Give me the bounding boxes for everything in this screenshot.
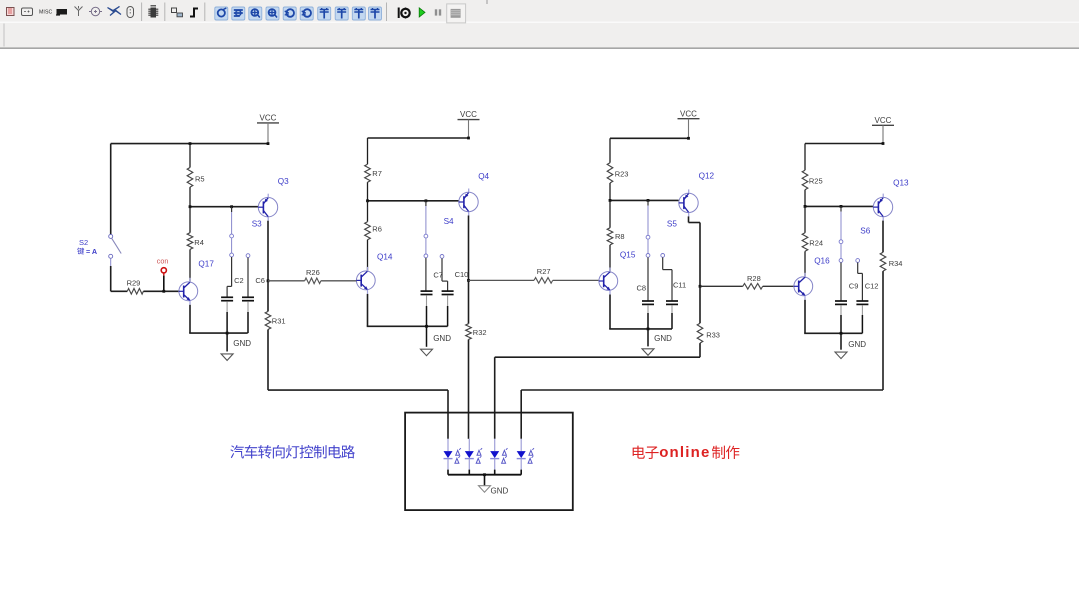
ground stage 3	[647, 328, 650, 331]
wire R34 to LED bus	[882, 271, 884, 390]
wire mid node stage 4	[805, 205, 873, 207]
svg-text:C6: C6	[255, 276, 265, 285]
title text (chinese blue)	[230, 445, 244, 458]
LED LED1	[447, 439, 449, 451]
transistor Q13 (PNP)	[873, 197, 892, 216]
svg-text:Q17: Q17	[198, 260, 214, 269]
toolbar icon: simulate settings (gear)	[398, 8, 400, 19]
svg-text:VCC: VCC	[680, 109, 697, 118]
toolbar icon: antenna Y	[75, 6, 83, 16]
svg-text:R24: R24	[809, 238, 823, 247]
svg-text:R23: R23	[615, 170, 629, 179]
switch S2	[109, 234, 113, 238]
toolbar separator	[164, 3, 166, 22]
transistor Q17 (NPN)	[179, 282, 198, 301]
wire LED cathode bus	[448, 474, 521, 476]
toolbar icon: pause	[435, 9, 437, 15]
svg-text:Q14: Q14	[377, 253, 393, 262]
title text (red)	[633, 446, 645, 459]
svg-text:online: online	[659, 444, 710, 461]
resistor R34	[880, 252, 886, 271]
capacitor C10	[440, 255, 444, 259]
svg-text:C10: C10	[455, 270, 469, 279]
wire R27 output stage2 to Q15 base	[469, 279, 535, 281]
resistor R26	[305, 278, 321, 284]
svg-text:GND: GND	[433, 334, 451, 343]
svg-text:R27: R27	[537, 267, 551, 276]
toolbar icon: stop button	[447, 4, 466, 23]
wire bottom rail stage 4	[804, 332, 862, 334]
transistor Q15 (NPN)	[599, 272, 618, 291]
toolbar icon: black display	[57, 9, 68, 15]
svg-text:C11: C11	[673, 281, 686, 290]
wire mid node stage 1	[190, 206, 258, 208]
toolbar icon: blue X wizard	[108, 7, 122, 16]
transistor Q4 (PNP)	[459, 192, 478, 211]
toolbar icon: instrument (TV)	[22, 8, 33, 16]
toolbar icon: run (green play)	[419, 8, 425, 17]
resistor R23	[609, 138, 611, 162]
svg-text:Q13: Q13	[893, 178, 909, 187]
ground stage 2	[425, 325, 428, 328]
toolbar icon: source circle	[91, 7, 99, 15]
toolbar icon: analysis 10	[369, 7, 382, 20]
toolbar icon: IC bug	[151, 8, 157, 18]
svg-text:R31: R31	[272, 316, 286, 325]
wire Q4 collector down	[468, 216, 470, 281]
wire top rail stage 1	[111, 143, 268, 145]
toolbar separator	[141, 3, 143, 22]
svg-text:C12: C12	[865, 282, 879, 291]
toolbar icon: place component (red grid)	[7, 8, 15, 16]
svg-text:GND: GND	[848, 340, 866, 349]
svg-text:S5: S5	[667, 220, 677, 229]
svg-text:R5: R5	[195, 175, 205, 184]
svg-text:Q16: Q16	[814, 257, 830, 266]
node Q3 emitter / VCC junction	[267, 142, 270, 145]
wire top rail stage 3	[610, 137, 689, 139]
svg-text:S3: S3	[252, 219, 262, 228]
wire R33 to LED bus	[699, 343, 701, 357]
toolbar icon: analysis 5	[283, 7, 296, 20]
svg-text:GND: GND	[233, 339, 251, 348]
wire Q15 emitter to bottom	[609, 295, 611, 329]
LED LED2	[468, 439, 470, 451]
svg-text:VCC: VCC	[875, 116, 892, 125]
capacitor C7	[425, 201, 427, 206]
wire mid node stage 3	[610, 199, 679, 201]
wire Q13 collector down	[882, 221, 884, 253]
svg-text:R29: R29	[127, 279, 141, 288]
wire Q14 emitter to bottom	[367, 294, 369, 326]
svg-text:C2: C2	[234, 276, 244, 285]
toolbar background	[0, 0, 1079, 22]
wire bottom rail stage 3	[609, 328, 672, 330]
wire C6 bottom lead	[247, 302, 249, 312]
toolbar icon: step/stair	[190, 9, 198, 17]
toolbar icon: analysis 4	[266, 7, 279, 20]
svg-text:R28: R28	[747, 274, 761, 283]
node output stage 1	[267, 279, 270, 282]
transistor Q16 (NPN)	[794, 277, 813, 296]
ground stage 1	[226, 332, 229, 335]
wire base drive stage 1	[111, 290, 128, 292]
wire R28 output stage3 to Q16 base	[700, 285, 743, 287]
wire R31 to LED bus	[267, 330, 269, 391]
svg-text:Q4: Q4	[478, 172, 489, 181]
LED LED3	[494, 439, 496, 451]
wire bottom rail stage 2	[367, 325, 448, 327]
resistor R24	[804, 206, 806, 232]
svg-text:= A: = A	[86, 247, 97, 256]
svg-text:R26: R26	[306, 268, 320, 277]
power VCC (stage 1)	[257, 122, 279, 124]
wire R29 to Q17 base	[143, 290, 179, 292]
wire Q17 emitter to bottom	[189, 305, 191, 333]
svg-text:S6: S6	[860, 227, 870, 236]
wire R26 output stage1 to Q14 base	[268, 280, 305, 282]
svg-text:R4: R4	[194, 238, 204, 247]
toolbar icon: analysis 2	[232, 7, 245, 20]
LED enclosure box	[405, 413, 573, 511]
ground LED box	[483, 473, 486, 476]
wire Q12 collector jog	[688, 216, 690, 222]
svg-text:VCC: VCC	[260, 114, 277, 123]
svg-text:R7: R7	[372, 169, 382, 178]
node R5 top junction	[189, 142, 192, 145]
toolbar icon: capsule	[127, 7, 134, 18]
toolbar icon: analysis 6	[300, 7, 313, 20]
node output stage 2	[467, 279, 470, 282]
wire top rail stage 4	[805, 143, 883, 145]
svg-text:S2: S2	[79, 238, 88, 247]
toolbar icon: analysis 9	[352, 7, 365, 20]
svg-text:VCC: VCC	[460, 110, 477, 119]
wire left column stage 1	[110, 144, 112, 235]
svg-text:MISC: MISC	[39, 9, 53, 15]
svg-text:R32: R32	[473, 328, 487, 337]
svg-text:GND: GND	[491, 486, 509, 495]
resistor R25	[804, 144, 806, 171]
capacitor C8	[647, 200, 649, 205]
wire R32 to LED2	[468, 340, 470, 439]
node con tap junction	[162, 290, 165, 293]
toolbar icon: hierarchy blocks	[172, 8, 177, 13]
resistor R29	[127, 289, 143, 295]
wire C2 bottom lead	[226, 302, 228, 312]
toolbar separator	[204, 3, 206, 22]
capacitor C2	[231, 207, 233, 212]
resistor R8	[609, 200, 611, 227]
LED LED4	[520, 439, 522, 451]
svg-text:C8: C8	[637, 284, 647, 293]
resistor R31	[267, 281, 269, 312]
resistor R32	[468, 280, 470, 323]
svg-text:con: con	[157, 257, 169, 266]
toolbar icon: analysis 8	[335, 7, 348, 20]
transistor Q14 (NPN)	[356, 271, 375, 290]
wire bottom rail stage 1	[189, 332, 248, 334]
wire below switch S2	[110, 258, 112, 266]
transistor Q12 (PNP)	[679, 193, 698, 212]
toolbar icon: analysis 7	[318, 7, 331, 20]
resistor R7	[367, 138, 369, 164]
power VCC (stage 3)	[678, 118, 700, 120]
svg-text:Q12: Q12	[699, 172, 715, 181]
node output stage 3	[699, 285, 702, 288]
svg-text:Q15: Q15	[620, 251, 636, 260]
svg-text:Q3: Q3	[278, 177, 289, 186]
svg-text:GND: GND	[654, 334, 672, 343]
power VCC (stage 4)	[872, 124, 894, 126]
svg-text:R8: R8	[615, 232, 625, 241]
wire mid node stage 2	[368, 200, 459, 202]
capacitor C12	[856, 259, 860, 263]
resistor R5	[189, 144, 191, 168]
resistor R33	[699, 286, 701, 323]
svg-text:S4: S4	[444, 217, 454, 226]
svg-text:R6: R6	[372, 225, 382, 234]
toolbar icon: analysis 1	[215, 7, 228, 20]
transistor Q3 (PNP)	[258, 198, 277, 217]
toolbar separator	[386, 3, 388, 22]
capacitor C11	[661, 254, 665, 258]
svg-text:R34: R34	[889, 259, 903, 268]
power VCC (stage 2)	[458, 119, 480, 121]
svg-text:R33: R33	[706, 330, 720, 339]
wire top rail stage 2	[368, 137, 469, 139]
svg-text:R25: R25	[809, 177, 823, 186]
resistor R4	[189, 207, 191, 233]
wire Q3 collector down	[267, 221, 269, 281]
wire Q16 emitter to bottom	[804, 300, 806, 334]
capacitor C9	[840, 206, 842, 211]
svg-text:C9: C9	[849, 282, 859, 291]
resistor R6	[367, 201, 369, 222]
ground stage 4	[840, 332, 843, 335]
toolbar icon: analysis 3	[249, 7, 262, 20]
node mid junction stage 1	[189, 205, 192, 208]
capacitor C6	[246, 254, 250, 258]
